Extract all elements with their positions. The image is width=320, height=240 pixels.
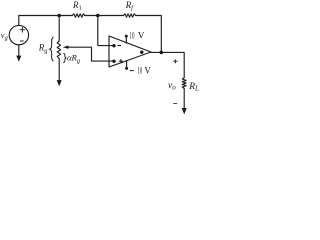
voltage source vg circle [9, 25, 28, 44]
wire node A down to Rg [58, 16, 60, 41]
label minus output polarity [173, 103, 177, 105]
vg plus sign [20, 27, 25, 32]
op-amp positive supply stub [125, 37, 127, 43]
label -10 V [130, 70, 134, 72]
resistor R1 [72, 14, 85, 17]
op-amp plus input sign [119, 59, 123, 63]
op-amp negative supply stub [126, 61, 128, 68]
op-amp negative supply dot [125, 67, 128, 70]
wire node A to R1 right to node B [85, 15, 124, 17]
svg-text:R1: R1 [72, 0, 82, 12]
output node junction dot [160, 51, 164, 55]
svg-text:10: 10 [137, 66, 142, 76]
svg-text:V: V [144, 65, 151, 75]
vg minus sign [20, 40, 23, 42]
svg-text:Rf: Rf [125, 0, 135, 11]
resistor Rf [124, 14, 136, 17]
wiper arrow wire to op-amp plus input [68, 47, 112, 61]
resistor Rg vertical [57, 41, 60, 59]
potentiometer wiper arrowhead [63, 46, 69, 49]
svg-text:V: V [138, 31, 145, 41]
resistor RL vertical [182, 78, 186, 89]
svg-text:vg: vg [1, 30, 8, 42]
wire output node to RL branch [161, 52, 184, 77]
svg-text:αRg: αRg [67, 53, 80, 65]
brace left of Rg [50, 37, 54, 61]
op-amp inverting input terminal dot [112, 44, 115, 47]
svg-text:RL: RL [188, 82, 199, 93]
svg-text:10: 10 [130, 32, 135, 42]
wire top-left from source to node A [19, 16, 72, 26]
wire node B down to op-amp minus input [98, 15, 113, 45]
ground arrow below source [16, 56, 21, 62]
node A junction dot [57, 14, 61, 18]
label plus output polarity [173, 59, 177, 63]
ground arrow below Rg [57, 80, 62, 86]
wire RL bottom to ground arrow [183, 88, 185, 108]
node B junction dot [96, 14, 100, 18]
brace right of alphaRg [64, 53, 67, 62]
wire source bottom to ground arrow [18, 45, 20, 56]
op-amp positive supply dot [125, 35, 128, 38]
svg-text:vo: vo [168, 81, 176, 92]
op-amp minus input sign [117, 45, 121, 47]
ground arrow below RL [182, 108, 187, 115]
wire Rf right then down to output node [136, 16, 162, 53]
op-amp U1 triangle [109, 36, 151, 67]
svg-text:Rg: Rg [38, 43, 49, 55]
op-amp noninverting input terminal dot [112, 60, 115, 63]
op-amp output wire to node [151, 51, 161, 53]
op-amp output terminal dot [140, 51, 143, 54]
wire Rg bottom to ground arrow [58, 59, 60, 81]
